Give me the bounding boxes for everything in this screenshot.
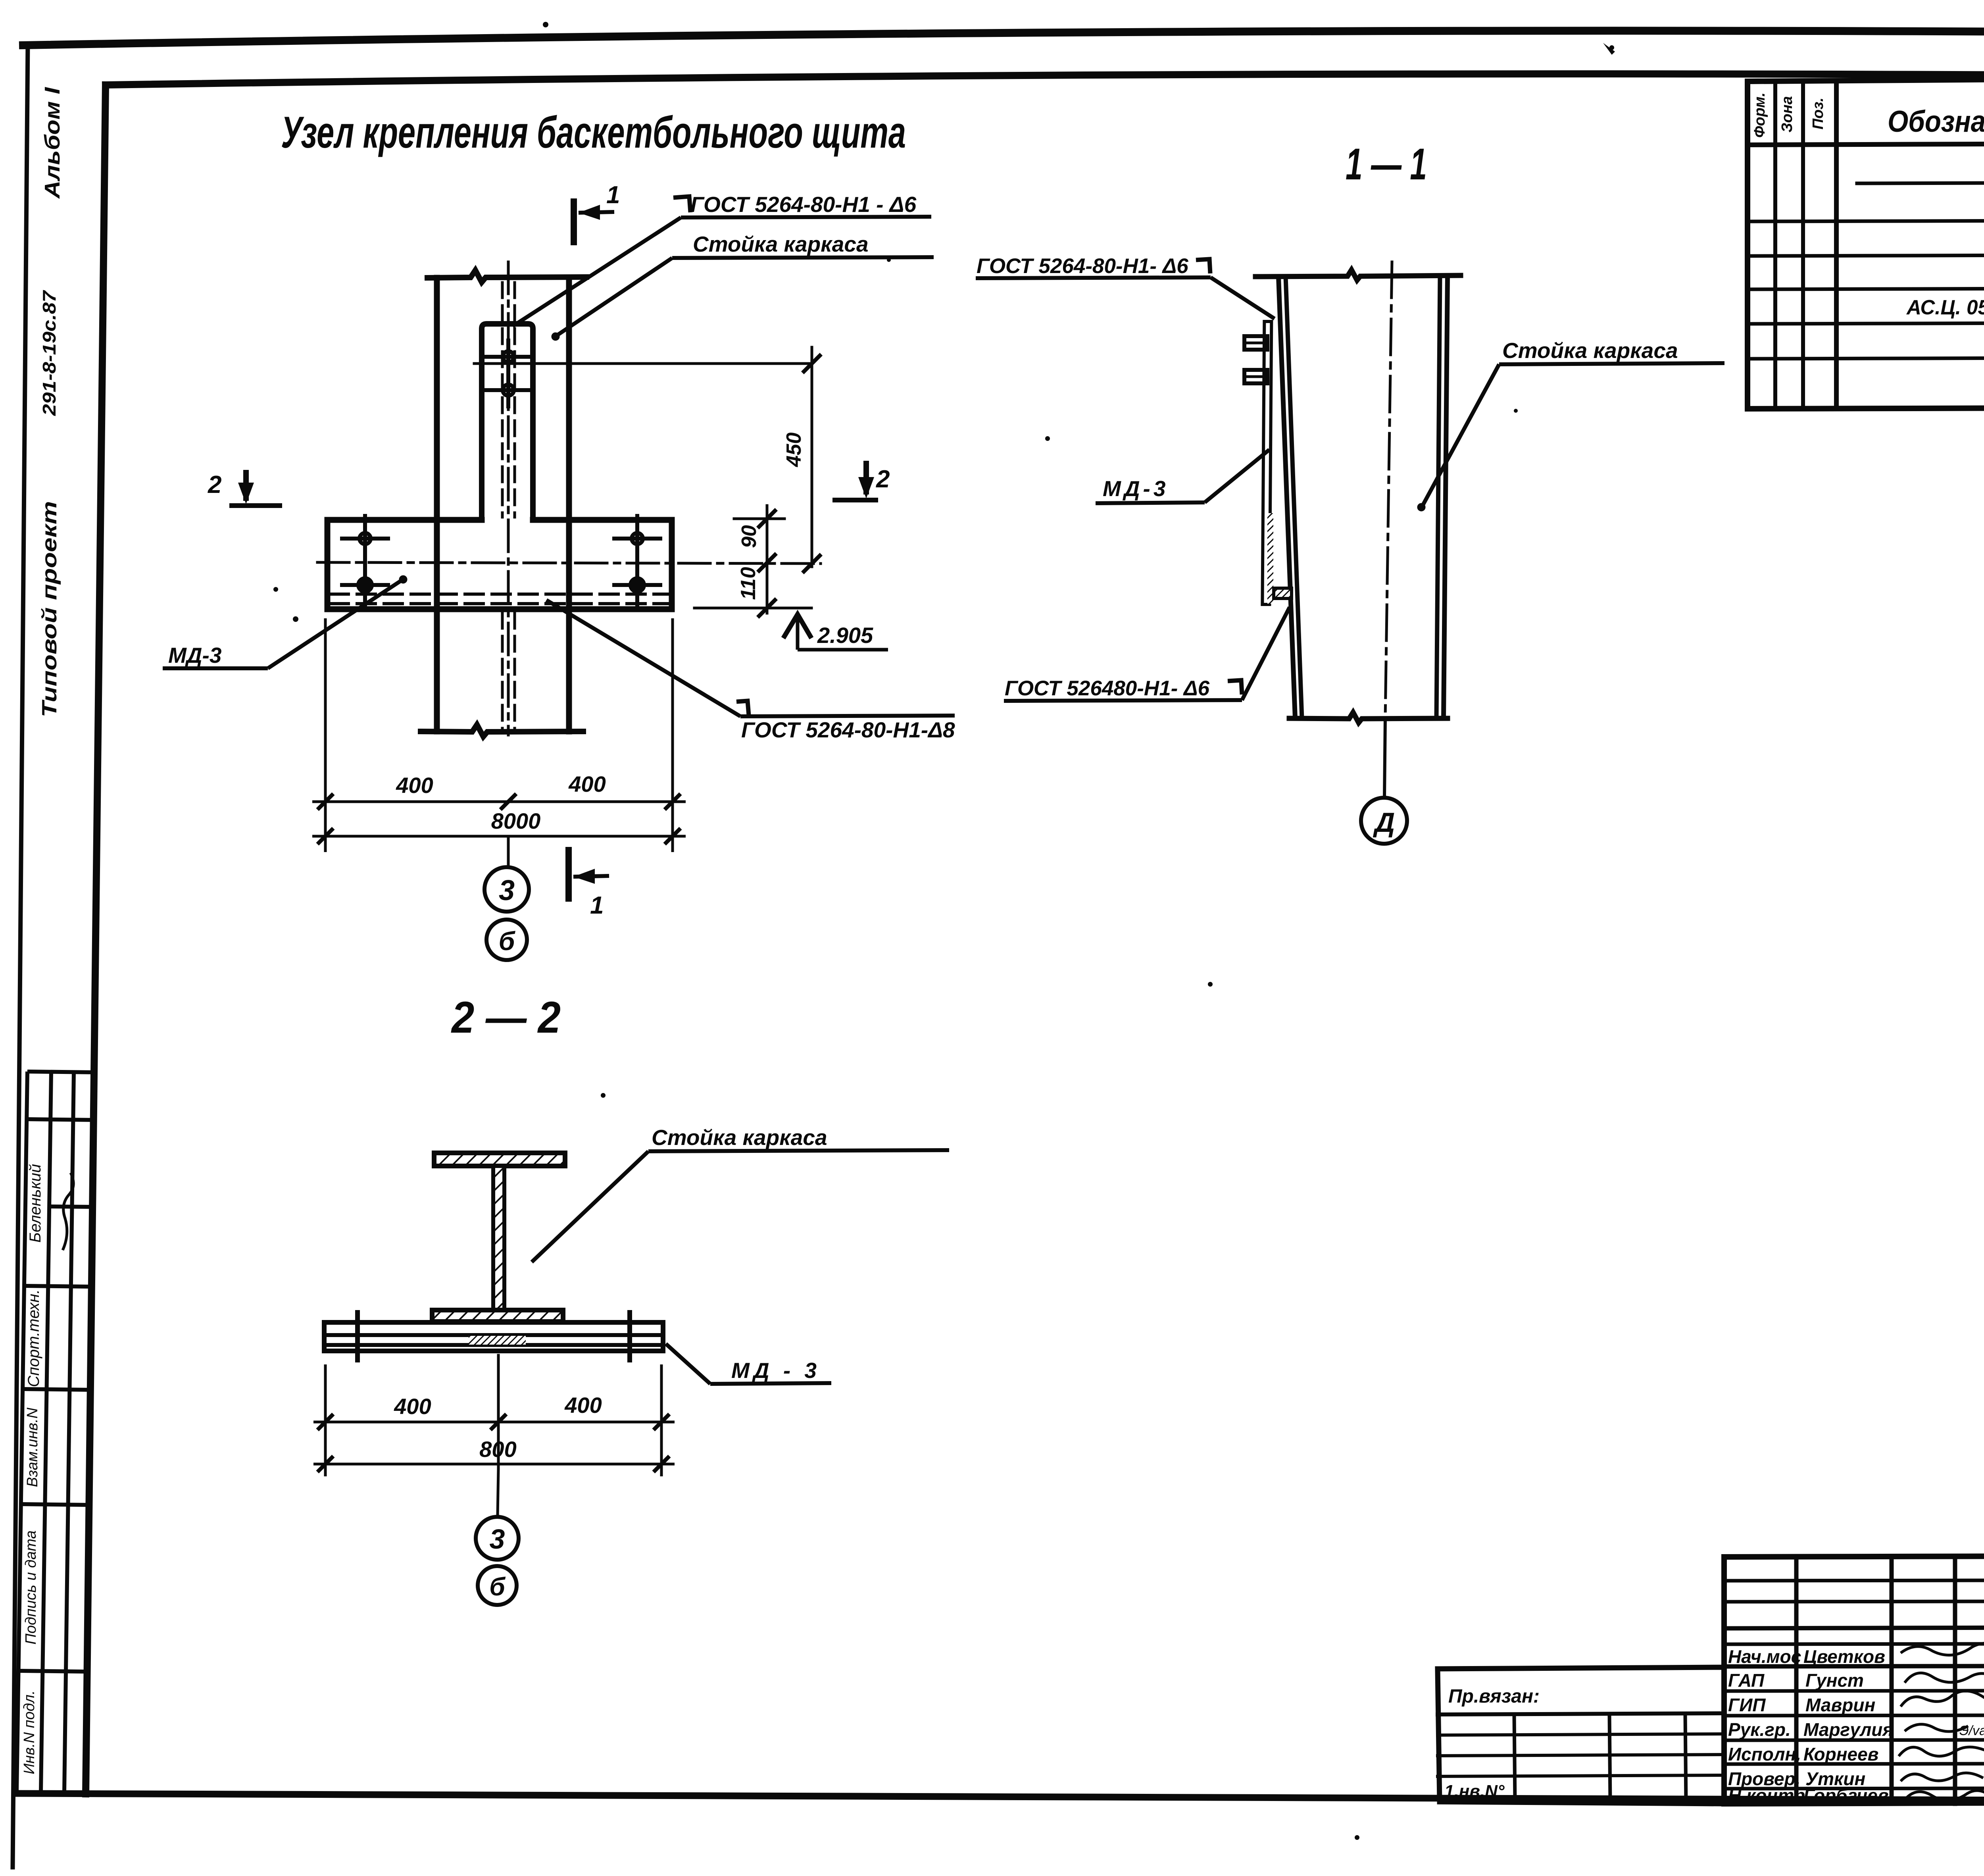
- title block row gap: [1724, 1691, 1984, 1691]
- svg-text:Н.контр: Н.контр: [1728, 1785, 1805, 1806]
- spec row line 4: [1748, 287, 1984, 289]
- tongue hidden edges below plate (dashed): [501, 613, 504, 729]
- privyazan box: [1438, 1667, 1724, 1804]
- axis circle D: [1361, 798, 1407, 844]
- label stoika karkasa (1-1): [1417, 363, 1724, 511]
- column centre line (dash-dot): [1385, 262, 1392, 718]
- plate bolt top-left: [342, 516, 388, 561]
- label stoika karkasa (front): [552, 257, 934, 341]
- svg-text:3: 3: [499, 875, 515, 906]
- column right flange inner: [1436, 276, 1440, 718]
- svg-text:Исполн.: Исполн.: [1728, 1744, 1801, 1764]
- svg-text:400: 400: [564, 1393, 602, 1418]
- dim ref line top (450): [474, 362, 812, 365]
- svg-text:Д: Д: [1373, 807, 1395, 838]
- svg-text:МД-3: МД-3: [168, 643, 221, 668]
- axis line to circles (2-2): [498, 1468, 498, 1516]
- MD-3 plate pack outline: [324, 1322, 663, 1351]
- plate centre line horizontal (dash-dot): [317, 562, 821, 564]
- svg-text:3: 3: [490, 1524, 505, 1555]
- tongue hidden edges (dashed): [501, 283, 504, 517]
- title block row prover bottom: [1724, 1788, 1984, 1789]
- label stoika karkasa (2-2): [532, 1150, 949, 1262]
- svg-text:АС.Ц. 05.09.00: АС.Ц. 05.09.00: [1906, 296, 1984, 319]
- plate pack line 1: [325, 1333, 662, 1337]
- svg-text:Стойка каркаса: Стойка каркаса: [1502, 338, 1678, 363]
- title block row thin 2: [1724, 1601, 1984, 1602]
- svg-text:291-8-19с.87: 291-8-19с.87: [39, 290, 60, 416]
- signature nach: [1901, 1643, 1984, 1655]
- title block col 2: [1890, 1557, 1894, 1804]
- column right flange line: [566, 278, 572, 731]
- svg-text:Корнеев: Корнеев: [1803, 1744, 1878, 1764]
- column left flange outer: [1278, 277, 1295, 718]
- title block outer: [1724, 1555, 1984, 1804]
- title block row thin 3: [1724, 1644, 1984, 1644]
- label GOST 5264-80-N1-D8 bottom: [546, 600, 955, 716]
- I-beam bottom flange: [432, 1310, 563, 1322]
- svg-text:Форм.: Форм.: [1751, 92, 1768, 138]
- dim vertical 450: [811, 347, 813, 567]
- signature gip: [1901, 1691, 1984, 1707]
- spec row line 6: [1748, 357, 1984, 359]
- label GOST 5264-80-N1-D6 (1-1 top): [976, 259, 1275, 319]
- svg-text:Гунст: Гунст: [1805, 1670, 1864, 1691]
- signature gap: [1905, 1673, 1984, 1684]
- column left flange inner: [1286, 277, 1302, 718]
- svg-text:Узел крепления баскетбольного: Узел крепления баскетбольного щита: [281, 108, 906, 157]
- title block row nach bottom (full): [1724, 1665, 1984, 1666]
- base plate outline: [327, 520, 672, 609]
- svg-text:2: 2: [876, 466, 890, 493]
- spec table outer border: [1748, 75, 1984, 409]
- svg-text:МД - 3: МД - 3: [731, 1358, 821, 1383]
- label MD-3 (front): [163, 575, 407, 668]
- plate pack line 2: [325, 1343, 662, 1347]
- svg-text:ГОСТ 5264-80-Н1-Δ8: ГОСТ 5264-80-Н1-Δ8: [741, 718, 955, 742]
- axis circle b (2-2): [478, 1566, 517, 1605]
- MD-3 plate bottom flange piece: [1274, 588, 1292, 598]
- tongue bolt 1: [486, 341, 531, 373]
- base plate hidden line 2: [330, 602, 670, 605]
- title block col 1: [1794, 1557, 1799, 1804]
- svg-text:Поз.: Поз.: [1810, 98, 1826, 130]
- svg-text:Стойка каркаса: Стойка каркаса: [693, 232, 869, 256]
- spec col form: [1773, 81, 1777, 408]
- column bottom edge with break: [421, 725, 583, 737]
- svg-text:Беленький: Беленький: [27, 1164, 44, 1243]
- svg-text:Взам.инв.N: Взам.инв.N: [24, 1407, 41, 1487]
- svg-text:ГАП: ГАП: [1728, 1670, 1765, 1691]
- dim ref line plate top extended: [734, 518, 784, 520]
- spec col zona: [1801, 81, 1805, 408]
- svg-text:ГОСТ 5264-80-Н1 - Δ6: ГОСТ 5264-80-Н1 - Δ6: [690, 192, 917, 217]
- section mark 1 top: [574, 198, 614, 245]
- svg-text:450: 450: [782, 433, 806, 468]
- svg-text:Типовой проект: Типовой проект: [38, 501, 61, 718]
- svg-text:ГИП: ГИП: [1728, 1695, 1766, 1715]
- section mark 2 right: [832, 461, 878, 500]
- label MD-3 (1-1): [1096, 450, 1269, 503]
- dim ref line plate bottom extended: [694, 607, 811, 610]
- label GOST 526480-N1-D6 (1-1 bottom): [1004, 607, 1290, 701]
- plate bolt bottom-left: [342, 562, 388, 608]
- svg-text:110: 110: [737, 567, 760, 600]
- label GOST 5264-80-N1-D6 top: [513, 196, 931, 326]
- column top edge with break: [1255, 270, 1461, 280]
- section mark 1 bottom: [569, 847, 609, 902]
- axis circle b: [486, 920, 527, 960]
- bolt tab 2: [1244, 370, 1267, 383]
- svg-text:1: 1: [590, 892, 604, 919]
- elevation mark 2.905: [783, 613, 888, 650]
- plate pack hatched weld strip: [469, 1336, 526, 1345]
- label MD-3 (2-2): [666, 1344, 831, 1384]
- svg-text:8000: 8000: [491, 808, 541, 833]
- signature n kontr: [1905, 1791, 1984, 1801]
- svg-text:2: 2: [208, 471, 221, 498]
- signature ruk: [1905, 1724, 1968, 1732]
- section mark 2 left: [229, 470, 282, 506]
- svg-text:800: 800: [479, 1437, 516, 1462]
- column left flange line: [434, 278, 440, 731]
- dimension group 2-2: [313, 1364, 675, 1476]
- spec header bottom line: [1748, 142, 1984, 145]
- paper left edge: [13, 44, 28, 1867]
- axis circle 3: [484, 867, 529, 912]
- svg-text:Обозначение: Обозначение: [1888, 105, 1984, 139]
- svg-text:90: 90: [738, 525, 761, 548]
- svg-text:Рук.гр.: Рук.гр.: [1728, 1719, 1791, 1740]
- svg-text:Пр.вязан:: Пр.вязан:: [1448, 1686, 1540, 1707]
- inner frame left: [86, 85, 106, 1794]
- spec row line 1 (oboznachenie col only): [1857, 182, 1984, 183]
- column centre line (dash-dot): [507, 262, 510, 735]
- svg-text:Горбачев: Горбачев: [1803, 1785, 1889, 1806]
- title block row gip bottom: [1724, 1715, 1984, 1716]
- title block col 3: [1953, 1557, 1957, 1804]
- svg-text:Нач.мос: Нач.мос: [1728, 1646, 1801, 1667]
- svg-text:400: 400: [396, 773, 433, 798]
- svg-text:Подпись и дата: Подпись и дата: [23, 1530, 39, 1644]
- title block row thin 1: [1724, 1580, 1984, 1581]
- tongue bolt 2: [486, 374, 531, 406]
- bolt line right: [627, 1312, 632, 1360]
- axis circle 3 (2-2): [476, 1517, 519, 1560]
- MD-3 plate hatched lower part: [1267, 513, 1273, 604]
- svg-text:Стойка каркаса: Стойка каркаса: [652, 1125, 827, 1150]
- svg-text:Инв.N подл.: Инв.N подл.: [21, 1690, 38, 1774]
- svg-text:б: б: [499, 926, 516, 956]
- bolt line left: [355, 1312, 360, 1360]
- svg-text:Цветков: Цветков: [1803, 1646, 1885, 1667]
- svg-text:Маргулия: Маргулия: [1803, 1719, 1894, 1740]
- column top edge with break: [427, 270, 586, 282]
- left stamp table grid: [17, 1072, 95, 1792]
- column right flange outer: [1444, 276, 1448, 718]
- spec col poz: [1834, 81, 1839, 408]
- svg-text:Маврин: Маврин: [1805, 1695, 1875, 1715]
- column bottom edge with break: [1289, 712, 1448, 723]
- signature prover: [1901, 1773, 1983, 1781]
- svg-text:400: 400: [568, 772, 606, 797]
- plate bolt top-right: [614, 516, 660, 561]
- title block row ruk bottom + stage row bottom: [1724, 1740, 1984, 1740]
- privyazan row line: [1438, 1713, 1724, 1714]
- svg-text:ГОСТ 5264-80-Н1- Δ6: ГОСТ 5264-80-Н1- Δ6: [977, 254, 1188, 278]
- spec row line 3: [1748, 254, 1984, 256]
- svg-text:Э/var.: Э/var.: [1959, 1723, 1984, 1738]
- base plate hidden line 1: [330, 593, 670, 596]
- title block row ispoln bottom: [1724, 1764, 1984, 1764]
- plate bolt bottom-right: [614, 562, 660, 608]
- privyazan inner cols: [1514, 1714, 1515, 1802]
- svg-text:ГОСТ 526480-Н1- Δ6: ГОСТ 526480-Н1- Δ6: [1005, 677, 1210, 700]
- svg-text:Спорт.техн.: Спорт.техн.: [25, 1289, 42, 1387]
- MD-3 plate edge view: [1262, 321, 1271, 604]
- axis line to circle D: [1384, 718, 1385, 797]
- stamp signature: [63, 1173, 73, 1250]
- inner frame top: [106, 74, 1984, 85]
- signature ispoln: [1899, 1747, 1984, 1756]
- I-beam web: [493, 1166, 504, 1310]
- svg-text:2.905: 2.905: [817, 623, 873, 648]
- MD-3 tongue plate outline: [482, 324, 533, 519]
- bolt tab 1: [1244, 336, 1267, 350]
- svg-text:МД-3: МД-3: [1103, 476, 1169, 501]
- paper top edge: [23, 31, 1984, 45]
- dim ticks vertical chain: [759, 356, 820, 616]
- I-beam top flange: [434, 1153, 565, 1166]
- axis line to circles: [507, 837, 510, 868]
- svg-text:Альбом I: Альбом I: [40, 87, 64, 199]
- svg-text:1.нв.N°: 1.нв.N°: [1444, 1782, 1505, 1801]
- privyazan inner rows: [1438, 1734, 1724, 1735]
- spec row line 5: [1748, 322, 1984, 324]
- spec row line 2: [1748, 219, 1984, 221]
- dim vertical 90-110: [766, 506, 769, 613]
- svg-text:2 — 2: 2 — 2: [451, 993, 561, 1042]
- svg-text:Зона: Зона: [1779, 96, 1796, 133]
- inner frame bottom: [16, 1793, 1984, 1802]
- svg-text:б: б: [489, 1572, 506, 1601]
- svg-text:400: 400: [394, 1394, 431, 1419]
- svg-text:1 — 1: 1 — 1: [1346, 139, 1427, 189]
- dimension group front view: [312, 618, 686, 852]
- centre line below plate: [497, 1355, 500, 1468]
- title block row TP bottom (full): [1724, 1626, 1984, 1628]
- svg-text:1: 1: [606, 181, 620, 209]
